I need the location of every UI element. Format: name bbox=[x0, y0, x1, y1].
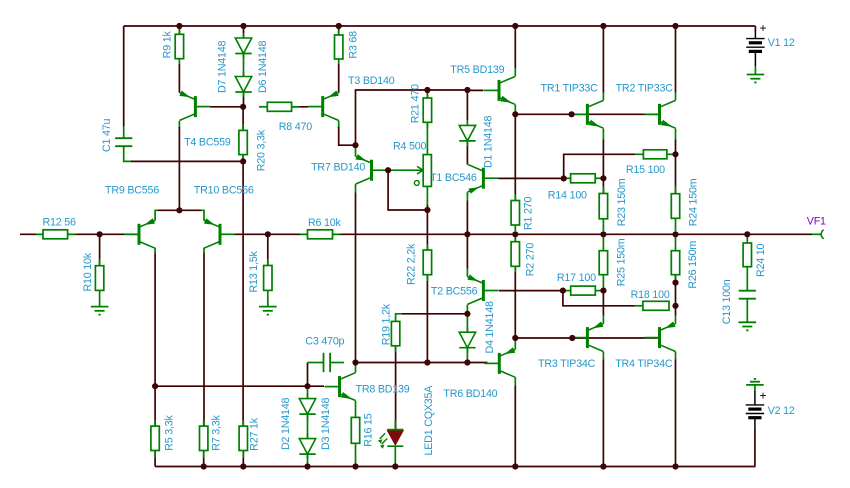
svg-text:D3 1N4148: D3 1N4148 bbox=[320, 397, 332, 450]
wire R18 right to TR4 emitter bbox=[675, 306, 677, 316]
svg-text:T2 BC556: T2 BC556 bbox=[431, 285, 478, 297]
wire driver base bus bbox=[515, 113, 659, 115]
wire R7 bottom bbox=[203, 451, 205, 467]
wire T2 emitter up to rail bbox=[466, 234, 468, 269]
resistor R7 bbox=[200, 420, 208, 458]
resistor R5 bbox=[151, 420, 159, 458]
resistor R8 bbox=[259, 102, 300, 111]
wire TR3 collector pin bbox=[602, 352, 604, 360]
svg-text:R7 3,3k: R7 3,3k bbox=[211, 415, 223, 451]
resistor R1 bbox=[511, 194, 519, 231]
wire TR3 collector down bbox=[602, 359, 604, 467]
node TR7 base bbox=[385, 167, 391, 173]
resistor R27 bbox=[239, 420, 247, 458]
wire T2 emitter pin bbox=[466, 268, 468, 277]
svg-text:TR7 BD140: TR7 BD140 bbox=[311, 162, 365, 174]
wire fb node to R6 bbox=[268, 233, 308, 235]
svg-text:T1 BC546: T1 BC546 bbox=[430, 172, 477, 184]
resistor R16 bbox=[351, 417, 359, 443]
transistor T3 bbox=[308, 91, 339, 121]
svg-text:VF1: VF1 bbox=[807, 216, 826, 228]
wire TR2 collector up bbox=[675, 26, 677, 93]
wire R2 line down bbox=[514, 234, 516, 241]
resistor R14 bbox=[566, 174, 595, 183]
wire R9 top bbox=[178, 26, 180, 34]
wire bottom supply rail bbox=[155, 466, 755, 468]
resistor R13 bbox=[264, 259, 272, 307]
wire R16 bottom bbox=[355, 443, 357, 466]
svg-text:T4 BC559: T4 BC559 bbox=[184, 136, 231, 148]
wire R26 bottom to R18 node bbox=[675, 275, 677, 306]
wire R17 L-link down to R18 bbox=[563, 291, 635, 306]
svg-text:R14 100: R14 100 bbox=[548, 190, 587, 202]
wire TR10 collector pin bbox=[203, 248, 205, 254]
wire TR8 base wire bbox=[155, 385, 324, 387]
ground above V2 bbox=[746, 379, 764, 385]
wire R5 bottom corner bbox=[154, 451, 156, 467]
node top rail R3 bbox=[336, 23, 342, 29]
wire V1 pin bottom bbox=[754, 52, 756, 66]
wire TR4 collector pin bbox=[675, 352, 677, 360]
wire TR3 emitter pin bbox=[602, 315, 604, 324]
capacitor C1 bbox=[115, 138, 132, 146]
svg-text:D6 1N4148: D6 1N4148 bbox=[257, 40, 269, 93]
node TR5 emitter bbox=[512, 111, 518, 117]
svg-text:R17 100: R17 100 bbox=[557, 272, 596, 284]
wire C13 to ground bbox=[746, 299, 748, 323]
wire R14 L-link up to R15 bbox=[564, 154, 635, 178]
resistor R26 bbox=[671, 237, 679, 283]
node R4 bottom bbox=[424, 207, 430, 213]
capacitor C13 bbox=[739, 291, 756, 299]
svg-text:T3 BD140: T3 BD140 bbox=[348, 75, 395, 87]
diode D6 bbox=[235, 72, 251, 98]
node rail T-emitters bbox=[464, 231, 470, 237]
wire TR4 emitter pin bbox=[675, 315, 677, 324]
transistor TR9 bbox=[124, 218, 155, 248]
svg-text:R10 10k: R10 10k bbox=[82, 252, 94, 291]
transistor TR1 bbox=[572, 100, 603, 128]
wire TR1 collector pin bbox=[602, 92, 604, 100]
transistor TR8 bbox=[325, 373, 356, 401]
svg-text:R15 100: R15 100 bbox=[626, 164, 665, 176]
wire R19 bottom to LED bbox=[395, 346, 397, 430]
wire output base bus bbox=[515, 337, 660, 339]
resistor R12 bbox=[36, 230, 76, 239]
transistor T1 bbox=[467, 164, 498, 194]
wire C3 right pin bbox=[330, 362, 344, 364]
resistor R19 bbox=[391, 315, 399, 353]
svg-text:R23 150m: R23 150m bbox=[616, 178, 628, 226]
wire TR5 base bbox=[467, 89, 483, 91]
node R17 right bbox=[600, 288, 606, 294]
node TR8 base bbox=[304, 383, 310, 389]
wire VF1 pin bbox=[812, 233, 821, 235]
node R21 top bbox=[424, 87, 430, 93]
wire V1 pin top bbox=[754, 30, 756, 39]
svg-text:R16 15: R16 15 bbox=[363, 413, 375, 447]
wire VAS node up-right bbox=[356, 90, 468, 145]
wire T4 collector down to tails bbox=[178, 127, 180, 210]
wire C1 bottom pin bbox=[124, 146, 132, 161]
transistor T2 bbox=[467, 274, 498, 304]
node diff tails bbox=[176, 207, 182, 213]
svg-text:+: + bbox=[760, 21, 767, 35]
wire TR8 collector up bbox=[355, 363, 357, 373]
resistor R10 bbox=[95, 259, 103, 307]
svg-text:+: + bbox=[760, 389, 767, 403]
svg-text:D4 1N4148: D4 1N4148 bbox=[484, 301, 496, 354]
wire T3 collector pin bbox=[338, 121, 340, 129]
svg-text:D2 1N4148: D2 1N4148 bbox=[280, 397, 292, 450]
wire input bbox=[20, 233, 43, 235]
wire T1 emitter down to rail bbox=[466, 200, 468, 234]
node TR1 base bbox=[569, 111, 575, 117]
node top rail TR2 bbox=[672, 23, 678, 29]
svg-text:D1 1N4148: D1 1N4148 bbox=[482, 115, 494, 168]
node top rail TR5 bbox=[512, 23, 518, 29]
svg-text:R22 2,2k: R22 2,2k bbox=[406, 243, 418, 285]
node rail R24R26 bbox=[672, 231, 678, 237]
wire T4 base to node A bbox=[210, 106, 244, 108]
resistor R25 bbox=[599, 237, 607, 275]
transistor TR2 bbox=[645, 100, 676, 128]
svg-text:R19 1,2k: R19 1,2k bbox=[380, 303, 392, 345]
svg-text:TR1 TIP33C: TR1 TIP33C bbox=[541, 83, 599, 95]
wire D6 to node A bbox=[243, 92, 245, 107]
node bottom R27 bbox=[240, 463, 246, 469]
node bottom TR3 bbox=[600, 463, 606, 469]
svg-text:R4 500: R4 500 bbox=[393, 140, 427, 152]
svg-text:R12 56: R12 56 bbox=[43, 217, 77, 229]
wire TR7 emitter up bbox=[355, 145, 357, 156]
svg-text:R1 270: R1 270 bbox=[523, 196, 535, 230]
wire TR2 emitter down bbox=[675, 139, 677, 194]
potentiometer R4 bbox=[414, 122, 431, 186]
ground under V1 bbox=[747, 75, 765, 83]
wire R25 bottom join bbox=[602, 275, 604, 291]
resistor R24b bbox=[671, 186, 679, 231]
wire D4 anode bbox=[466, 314, 468, 332]
ground under C13 bbox=[739, 322, 757, 330]
node bottom LED bbox=[392, 463, 398, 469]
wire R9 bottom to T4 emitter bbox=[178, 64, 180, 93]
node rail zobel bbox=[744, 231, 750, 237]
node R15 right bbox=[672, 151, 678, 157]
svg-text:R2 270: R2 270 bbox=[525, 243, 537, 277]
wire R10 top bbox=[99, 234, 101, 265]
node feedback bbox=[265, 231, 271, 237]
wire TR3 base dot link bbox=[572, 337, 587, 339]
node bottom R16 bbox=[352, 463, 358, 469]
wire V2 pin top bbox=[754, 391, 756, 405]
battery V1 bbox=[746, 39, 764, 52]
capacitor C3 bbox=[324, 353, 331, 372]
wire TR10 emitter pin bbox=[201, 210, 204, 220]
transistor TR7 bbox=[356, 154, 387, 184]
wire diode chain top bbox=[307, 386, 309, 398]
transistor TR6 bbox=[484, 347, 515, 377]
wire top supply rail bbox=[124, 25, 756, 27]
wire R22 bottom bbox=[426, 275, 428, 363]
svg-text:TR2 TIP33C: TR2 TIP33C bbox=[616, 83, 674, 95]
diode D2 bbox=[299, 394, 315, 420]
wire D4 cathode to bias bus bbox=[466, 348, 468, 362]
svg-text:TR10 BC556: TR10 BC556 bbox=[194, 184, 254, 196]
wire V2 bottom to rail bbox=[754, 430, 756, 467]
svg-text:R20 3,3k: R20 3,3k bbox=[255, 129, 267, 171]
wire TR1 collector up bbox=[602, 26, 604, 93]
resistor R22 bbox=[423, 244, 431, 281]
wire T1 emitter pin bbox=[466, 192, 468, 201]
wire TR5 collector up bbox=[514, 26, 516, 69]
diode D3 bbox=[299, 434, 315, 460]
svg-text:C13 100n: C13 100n bbox=[721, 279, 733, 324]
wire TR10 base to fb node bbox=[233, 233, 268, 235]
wire bias bus bbox=[356, 362, 488, 364]
node T4 base bbox=[240, 104, 246, 110]
wire C1 top pin bbox=[123, 126, 125, 138]
svg-text:D7 1N4148: D7 1N4148 bbox=[217, 40, 229, 93]
node R26 bottom bbox=[672, 280, 678, 286]
svg-text:R24 10: R24 10 bbox=[755, 243, 767, 277]
wire TR1 emitter down bbox=[602, 139, 604, 194]
wire R17 right join bbox=[595, 290, 603, 292]
resistor R20 bbox=[239, 124, 247, 160]
svg-text:LED1 CQX35A: LED1 CQX35A bbox=[423, 385, 435, 456]
terminal VF1 bbox=[821, 230, 824, 239]
wire T3 collector down bbox=[339, 127, 356, 145]
node R14 left bbox=[561, 175, 567, 181]
svg-text:R18 100: R18 100 bbox=[631, 289, 670, 301]
svg-text:C3 470p: C3 470p bbox=[305, 336, 344, 348]
svg-text:R6 10k: R6 10k bbox=[308, 217, 342, 229]
ground under R13 bbox=[259, 307, 277, 315]
wire LED cathode bbox=[394, 446, 396, 466]
node bottom TR4 bbox=[672, 463, 678, 469]
svg-text:R24 150m: R24 150m bbox=[687, 178, 699, 226]
svg-text:TR6 BD140: TR6 BD140 bbox=[443, 388, 497, 400]
svg-text:R8 470: R8 470 bbox=[279, 121, 313, 133]
resistor R2 bbox=[511, 236, 519, 272]
wire T2 base to R17 bbox=[499, 290, 563, 292]
wire T2 collector to node bbox=[466, 305, 468, 314]
wire R12 to node input bbox=[68, 233, 124, 235]
wire TR6 collector pin bbox=[514, 377, 516, 386]
node TR9 collector line bbox=[152, 383, 158, 389]
wire TR4 collector down bbox=[675, 359, 677, 467]
svg-text:R26 150m: R26 150m bbox=[687, 241, 699, 289]
wire R3 top bbox=[338, 26, 340, 35]
svg-text:V2 12: V2 12 bbox=[768, 405, 795, 417]
LED LED1 bbox=[378, 420, 403, 449]
node T2 collector bbox=[464, 311, 470, 317]
node R18 right bbox=[672, 303, 678, 309]
transistor TR10 bbox=[204, 218, 235, 248]
wire TR9 collector pin bbox=[154, 248, 156, 254]
wire R15 right join bbox=[667, 153, 676, 155]
node R17 left bbox=[560, 288, 566, 294]
resistor R24 bbox=[743, 243, 751, 267]
wire R24 zobel top bbox=[746, 234, 748, 243]
node TR3 base bbox=[569, 335, 575, 341]
svg-text:R9 1k: R9 1k bbox=[162, 31, 174, 59]
wire TR6 emitter up bbox=[514, 338, 516, 349]
resistor R21 bbox=[423, 91, 431, 128]
wire D2-D3 link bbox=[307, 414, 309, 439]
transistor TR4 bbox=[645, 322, 676, 352]
svg-text:TR9 BC556: TR9 BC556 bbox=[105, 184, 159, 196]
resistor R3 bbox=[335, 30, 343, 64]
battery V2 bbox=[746, 405, 764, 418]
diode D1 bbox=[459, 120, 475, 145]
node top rail R9 bbox=[176, 23, 182, 29]
node VAS emitter bbox=[352, 142, 358, 148]
transistor TR3 bbox=[572, 322, 603, 352]
wire T4 collector pin bbox=[178, 121, 180, 128]
svg-text:R3 68: R3 68 bbox=[348, 31, 360, 59]
wire D1 top lead bbox=[466, 90, 468, 120]
svg-text:R25 150m: R25 150m bbox=[615, 238, 627, 286]
node TR6 emitter bbox=[512, 335, 518, 341]
node D4 cathode bbox=[464, 359, 470, 365]
svg-text:R13 1,5k: R13 1,5k bbox=[248, 250, 260, 292]
wire D3 to bottom rail bbox=[307, 454, 309, 467]
svg-text:TR3 TIP34C: TR3 TIP34C bbox=[538, 358, 596, 370]
diode D4 bbox=[459, 327, 475, 353]
node R22 bottom bbox=[424, 359, 430, 365]
node R14 right bbox=[600, 175, 606, 181]
svg-text:R21 470: R21 470 bbox=[409, 84, 421, 123]
wire R3 bottom to T3 emitter bbox=[338, 64, 340, 93]
ground under R10 bbox=[91, 307, 109, 315]
node TR8 collector bbox=[352, 359, 358, 365]
wire T1 collector up to D1 bbox=[466, 142, 468, 165]
wire TR5 collector pin bbox=[514, 68, 516, 76]
wire TR1 emitter pin bbox=[602, 128, 604, 140]
wire C3 left pin bbox=[308, 362, 324, 364]
wire TR9 emitter pin bbox=[155, 210, 158, 220]
svg-text:TR4 TIP34C: TR4 TIP34C bbox=[615, 358, 673, 370]
resistor R17 bbox=[566, 286, 595, 295]
wire TR8 emitter to R16 bbox=[355, 401, 357, 418]
wire R14 right join bbox=[595, 177, 603, 179]
node input R10 bbox=[97, 231, 103, 237]
svg-text:C1 47u: C1 47u bbox=[101, 118, 113, 152]
wire C3 left wrap bbox=[307, 363, 309, 387]
node rail R1R2 bbox=[512, 231, 518, 237]
node bottom D3 bbox=[304, 463, 310, 469]
wire R24 to C13 bbox=[746, 267, 748, 291]
wire C1 bottom wrap to R20 bottom bbox=[131, 160, 243, 162]
wire R20 bottom to R27 line bbox=[242, 155, 244, 427]
resistor R23 bbox=[599, 186, 607, 231]
resistor R9 bbox=[175, 29, 183, 64]
wire TR9 base pin gap bbox=[124, 233, 138, 235]
node top rail D7 bbox=[240, 23, 246, 29]
svg-text:TR8 BD139: TR8 BD139 bbox=[356, 384, 410, 396]
transistor T4 bbox=[179, 91, 210, 121]
wire D7 top bbox=[243, 26, 245, 38]
wire node A to R20 bbox=[242, 107, 244, 131]
node bottom TR6 bbox=[512, 463, 518, 469]
node rail R23R25 bbox=[600, 231, 606, 237]
wire T1 base to R14 bbox=[498, 177, 564, 179]
wire TR2 collector pin bbox=[675, 92, 677, 100]
wire TR10 collector down bbox=[203, 252, 205, 426]
wire R21 top stub bbox=[426, 90, 428, 98]
svg-text:R5 3,3k: R5 3,3k bbox=[163, 415, 175, 451]
wire TR6 collector down bbox=[514, 385, 516, 467]
wire V1 to ground bbox=[754, 66, 756, 75]
wire R13 top bbox=[267, 234, 269, 265]
wire R1 line down bbox=[514, 114, 516, 200]
wire TR9 collector down bbox=[154, 252, 156, 426]
node D1 top bbox=[464, 87, 470, 93]
wire TR5 emitter down bbox=[514, 104, 516, 114]
wire D7-D6 link bbox=[243, 54, 245, 77]
wire TR3 emitter up bbox=[602, 291, 604, 316]
wire pot bottom wrap bbox=[388, 170, 427, 210]
wire R4 bottom to R22 bbox=[426, 205, 428, 250]
resistor R15 bbox=[635, 150, 667, 159]
wire TR7 collector down bbox=[355, 192, 357, 363]
node top rail TR1 bbox=[600, 23, 606, 29]
resistor R6 bbox=[300, 230, 341, 239]
svg-text:TR5 BD139: TR5 BD139 bbox=[450, 64, 504, 76]
wire output rail bbox=[333, 233, 813, 235]
node bottom R7 bbox=[201, 463, 207, 469]
wire C1 top lead to top rail bbox=[123, 26, 125, 127]
wire R4 bottom pin bbox=[426, 186, 428, 206]
wire V2 ground stub bbox=[754, 385, 756, 392]
svg-text:R27 1k: R27 1k bbox=[249, 417, 261, 451]
svg-text:V1 12: V1 12 bbox=[768, 37, 795, 49]
wire R27 bottom bbox=[242, 451, 244, 467]
node R20 bottom bbox=[240, 158, 246, 164]
wire R2 to TR6 emitter node bbox=[514, 266, 516, 338]
transistor TR5 bbox=[484, 77, 515, 105]
wire V2 pin bottom bbox=[754, 418, 756, 431]
wire R19 top wire bbox=[402, 313, 467, 315]
resistor R18 bbox=[635, 301, 670, 310]
diode D7 bbox=[235, 33, 251, 59]
wire R19 top wrap bbox=[396, 313, 403, 316]
wire TR7 collector pin bbox=[355, 184, 357, 193]
wire TR7 base to pot wiper bbox=[386, 169, 423, 171]
wire diff tails bbox=[157, 209, 202, 211]
wire TR2 emitter pin bbox=[675, 128, 677, 140]
wire V1 battery top bbox=[754, 26, 756, 31]
wire TR4 emitter diag link bbox=[675, 323, 677, 325]
wire R8 right to T3 base bbox=[292, 106, 308, 108]
